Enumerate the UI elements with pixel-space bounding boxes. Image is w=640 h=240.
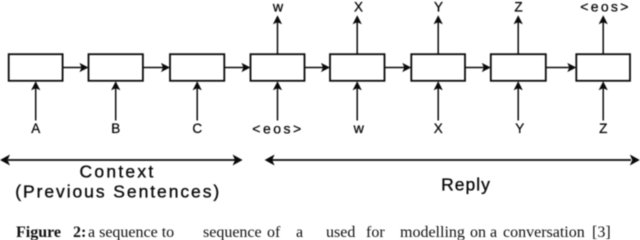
box 2 — [89, 54, 143, 81]
svg-text:B: B — [111, 121, 120, 136]
svg-text:A: A — [31, 121, 40, 136]
svg-text:<eos>: <eos> — [580, 0, 630, 15]
svg-text:Context: Context — [79, 162, 155, 182]
svg-text:X: X — [354, 0, 363, 15]
output arrows (top, out of boxes 4-8) — [278, 22, 604, 55]
region labels — [15, 162, 491, 202]
caption (cut off at bottom) — [16, 224, 61, 240]
svg-text:w: w — [272, 0, 284, 16]
context double arrow — [8, 159, 631, 161]
svg-text:Z: Z — [514, 0, 522, 15]
box 5 — [330, 54, 385, 81]
svg-text:w: w — [353, 121, 365, 137]
svg-text:Reply: Reply — [441, 175, 491, 195]
box 8 — [576, 54, 630, 81]
svg-text:(Previous Sentences): (Previous Sentences) — [15, 182, 221, 202]
svg-text:Y: Y — [434, 0, 443, 15]
box 3 — [170, 54, 224, 81]
svg-text:X: X — [434, 121, 443, 136]
svg-text:Z: Z — [599, 121, 607, 136]
svg-text:C: C — [192, 121, 202, 136]
box 1 — [9, 54, 63, 81]
box 4 — [251, 54, 305, 81]
box 7 — [491, 54, 546, 81]
svg-text:Y: Y — [515, 121, 524, 136]
svg-text:<eos>: <eos> — [252, 121, 303, 137]
box 6 — [411, 54, 465, 81]
wire h-arrows between boxes — [63, 67, 570, 69]
input arrows (bottom, up into boxes) — [36, 87, 604, 121]
